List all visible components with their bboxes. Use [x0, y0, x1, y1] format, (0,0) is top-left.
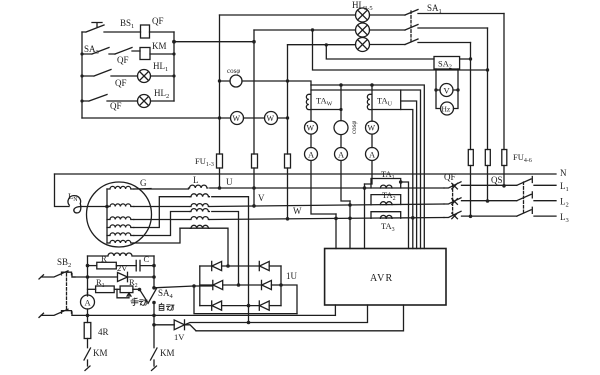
disconnect QS pole 1	[517, 177, 556, 186]
wattmeter W (left pair 1)	[231, 112, 244, 125]
wire: bridge phase C extension to AVR line	[248, 306, 250, 323]
voltmeter V	[440, 84, 453, 97]
switch SA1 pole 1	[405, 10, 504, 16]
svg-text:QF: QF	[110, 101, 122, 111]
reactor L row6	[190, 225, 209, 228]
lamp HL3	[356, 8, 370, 22]
wire: TA box top line / lead 2 to AVR	[311, 90, 421, 249]
wire: reactor row6 loop to bridge phase A	[180, 228, 228, 266]
wire: vertical from lamp line 1 down through FU1 to U	[219, 15, 221, 188]
svg-text:V: V	[444, 86, 451, 96]
lamp HL5	[356, 38, 370, 52]
wire: N line	[55, 173, 557, 175]
svg-text:R1: R1	[96, 277, 105, 289]
winding G phase 3	[107, 217, 134, 220]
bridge frame 1U	[200, 266, 281, 306]
wattmeter W (chain 1)	[305, 85, 318, 134]
svg-text:1U: 1U	[286, 271, 298, 281]
svg-text:R: R	[101, 254, 107, 264]
wire: V/Hz meter verticals	[436, 69, 458, 109]
wire: N left drop to neutral reactor	[55, 174, 70, 207]
wire: sense drop U to AVR	[364, 184, 366, 249]
disconnect QS pole 3	[517, 207, 556, 216]
wire: SA4 common to bridge mid row	[154, 286, 213, 288]
node: snubber junctions	[86, 264, 156, 279]
wire: lamp line2 tap down to SA2 lower wire	[313, 30, 488, 70]
wire: ladder right bus	[173, 32, 175, 101]
wire: AVR output 3 to line y331	[196, 305, 404, 331]
svg-text:TAU: TAU	[377, 96, 393, 108]
fuse FU1	[217, 154, 223, 168]
svg-text:W: W	[368, 124, 376, 133]
svg-text:L: L	[193, 175, 199, 185]
reactor L row4	[190, 209, 209, 212]
wire: field left leg	[87, 256, 89, 296]
wire: ladder tap to metering vertical	[174, 41, 254, 43]
svg-text:TA2: TA2	[382, 190, 396, 202]
wire: SA1 pole3 down to FU6	[470, 43, 472, 217]
node: SA2 right junction	[469, 57, 472, 60]
link QF dashed	[452, 184, 454, 213]
svg-text:1V: 1V	[174, 332, 185, 342]
svg-text:FU1-3: FU1-3	[195, 156, 214, 168]
winding G harmonic 2	[107, 233, 134, 236]
wire: G harmonic2 jog up to reactor row4	[134, 212, 190, 236]
block AVR	[325, 249, 446, 306]
wire: G harmonic1 jog up to reactor row2	[134, 197, 190, 228]
wire: TA1 takeoff to AVR	[401, 182, 409, 249]
svg-text:V: V	[258, 193, 265, 203]
node: bus junctions	[80, 40, 176, 103]
fuse FU6	[468, 150, 473, 166]
wire: SA2 right to pole-1 drop	[460, 58, 471, 60]
diode 1U-c1	[200, 301, 259, 310]
wire: TA metering bus / lead 1 to AVR	[311, 85, 424, 249]
wire: A3 drop and jog to U line	[365, 161, 373, 185]
svg-text:A: A	[308, 150, 315, 160]
reactor L row2	[190, 194, 209, 197]
node: TA bus junctions	[339, 83, 374, 111]
svg-text:LN: LN	[68, 191, 78, 203]
node: metering junctions	[218, 79, 289, 119]
wire: ladder left bus	[81, 32, 83, 118]
wattmeter W (left pair 2)	[265, 112, 278, 125]
resistor 4R	[84, 315, 91, 347]
pushbutton SB2 pole 2	[39, 309, 72, 317]
disconnect QS pole 2	[517, 192, 556, 201]
svg-text:cosφ: cosφ	[350, 121, 358, 134]
svg-text:SB2: SB2	[57, 257, 71, 269]
diode 1U-b2	[262, 280, 282, 289]
wire: G phase2 (V) to reactor row3	[134, 206, 189, 208]
wire: A1 drop and jog to W line	[311, 161, 336, 215]
svg-text:KM: KM	[160, 348, 175, 358]
node: R2 output	[138, 288, 142, 292]
capacitor C	[136, 260, 154, 270]
meter cos-phi	[230, 75, 242, 87]
wire: ladder bottom to wattmeter line	[82, 117, 220, 119]
node: lamp line junctions	[252, 28, 328, 46]
svg-text:L1: L1	[560, 181, 569, 193]
wire: drop to bridge bottom rail	[194, 286, 297, 314]
generator G	[87, 182, 152, 247]
wire: SA1 pole1 down to FU4	[503, 14, 505, 186]
svg-text:TA1: TA1	[381, 169, 395, 181]
reactor LN	[68, 196, 81, 213]
rheostat R2	[114, 286, 139, 298]
svg-text:TAW: TAW	[316, 96, 333, 108]
coil KM	[140, 48, 150, 60]
wire: reactor row2 drop to bridge phase C	[212, 197, 249, 306]
frequency meter Hz	[441, 102, 454, 115]
ammeter A (chain 1)	[305, 134, 318, 160]
contact QF aux (rung 2)	[115, 48, 140, 55]
svg-text:HL1: HL1	[153, 61, 168, 73]
wire: R2 to manual contact	[140, 290, 148, 303]
lamp HL1	[138, 70, 175, 83]
ammeter A (chain 2)	[335, 135, 348, 161]
pushbutton SB2 pole 1	[39, 271, 75, 279]
link QS dashed	[523, 182, 525, 212]
svg-text:FU4-6: FU4-6	[513, 152, 532, 164]
svg-text:KM: KM	[93, 348, 108, 358]
diode 1U-b1	[200, 280, 262, 289]
wire: A2 drop and jog to V line	[341, 161, 350, 202]
fuse FU2	[252, 154, 258, 168]
contact QF (rung 3)	[82, 70, 138, 77]
wire: AVR output 1	[334, 305, 336, 315]
wire: U line from reactor to QF	[210, 187, 444, 189]
contact KM (left)	[84, 348, 91, 371]
wire: sense drop V to AVR	[349, 201, 351, 249]
winding G harmonic 1	[107, 225, 134, 228]
wire: V line from reactor to QF	[210, 204, 444, 207]
node: bridge junctions	[226, 264, 283, 324]
diode 1U-c2	[259, 301, 281, 310]
wire: lamp line3 tap down to SA2 upper wire	[326, 45, 434, 59]
breaker QF pole 2	[444, 198, 517, 205]
winding G phase 2	[107, 204, 134, 207]
svg-text:KM: KM	[152, 41, 167, 51]
coil QF (rung 1)	[141, 25, 150, 38]
svg-text:A: A	[369, 150, 376, 160]
ammeter A (field)	[81, 293, 95, 316]
breaker QF pole 3	[444, 211, 517, 218]
svg-text:W: W	[293, 206, 302, 216]
contact QF (rung 4)	[82, 95, 138, 102]
switch box SA2	[434, 57, 460, 70]
svg-text:W: W	[307, 124, 315, 133]
svg-text:A: A	[338, 150, 345, 160]
svg-text:W: W	[267, 114, 275, 123]
diode 1U-a1	[200, 261, 259, 270]
svg-text:HL3-5: HL3-5	[352, 0, 373, 12]
wire: lamp line 1	[220, 14, 356, 16]
wire: cos-phi meter line	[220, 80, 288, 82]
pushbutton BS1	[82, 23, 141, 33]
svg-text:N: N	[560, 168, 567, 178]
switch SA3 (rung 2)	[82, 48, 115, 55]
svg-text:HL2: HL2	[154, 88, 169, 100]
switch SA1 pole 2	[405, 25, 488, 31]
wire: LN to generator neutral	[80, 206, 107, 208]
svg-text:AVR: AVR	[370, 273, 393, 284]
diode 1V	[154, 320, 196, 331]
wire: G phase3 (W) to reactor row5	[134, 219, 189, 221]
fuse FU3	[285, 154, 291, 168]
wire: bridge plus loop	[281, 285, 297, 314]
link SB2 dashed	[66, 274, 68, 310]
resistor R1	[88, 286, 115, 293]
wire: reactor row4 drop to bridge phase B	[212, 212, 239, 286]
node: TA1 takeoff	[399, 180, 403, 184]
svg-text:cosφ: cosφ	[227, 67, 240, 75]
wire: generator star bar	[106, 189, 108, 243]
wire: W line from reactor to QF	[210, 218, 444, 220]
svg-text:C: C	[144, 254, 150, 264]
svg-text:A: A	[85, 298, 92, 308]
svg-text:U: U	[226, 177, 233, 187]
node: 1V tap	[152, 323, 156, 327]
svg-text:L3: L3	[560, 212, 569, 224]
lamp HL2	[138, 95, 175, 108]
wire: lamp line 3 from fuse-3 chain	[288, 44, 356, 46]
wire: AVR output 2 to line y322	[185, 305, 368, 325]
svg-text:QF: QF	[444, 172, 456, 182]
node: bridge left drop	[192, 284, 196, 288]
svg-text:QF: QF	[117, 55, 129, 65]
fuse FU4	[502, 150, 507, 166]
winding field LG	[88, 253, 155, 256]
wire: auto chain vertical	[153, 303, 155, 348]
wire: lead 4 to AVR	[401, 110, 413, 249]
ammeter A (chain 3)	[366, 134, 379, 160]
label manual (hand-drawn CJK strokes)	[131, 298, 147, 305]
svg-text:QF: QF	[152, 16, 164, 26]
svg-text:BS1: BS1	[120, 18, 134, 30]
wattmeter W (chain 3)	[366, 85, 379, 134]
svg-text:W: W	[233, 114, 241, 123]
svg-text:4R: 4R	[98, 327, 109, 337]
svg-text:TA3: TA3	[381, 221, 395, 233]
node: voltmeter junctions	[434, 88, 459, 91]
CT TA1	[371, 179, 401, 189]
resistor R	[88, 262, 137, 269]
node: junction at SA2 lower wire	[486, 68, 489, 71]
wire: wattmeter line segments	[220, 117, 288, 119]
svg-text:G: G	[140, 178, 147, 188]
CT TA2	[371, 195, 401, 205]
selector SA4	[148, 286, 157, 304]
node: fuse taps on L lines	[469, 184, 506, 218]
wire: long auto bus	[72, 314, 335, 316]
wire: field right leg / auto chain top	[153, 256, 155, 288]
winding G phase 1	[107, 186, 134, 189]
meter cos-phi (chain 2)	[334, 85, 348, 135]
link SA1 dashed	[410, 11, 412, 43]
svg-text:SA4: SA4	[158, 288, 174, 300]
winding G harmonic 3	[107, 240, 134, 243]
wire: vertical through FU2 down to V	[253, 30, 255, 206]
fuse FU5	[485, 150, 490, 166]
svg-text:Hz: Hz	[442, 105, 451, 114]
node: auto bus junctions	[86, 314, 156, 318]
svg-text:QS: QS	[491, 175, 503, 185]
reactor L row3	[190, 204, 209, 207]
node: neutral junction	[105, 205, 109, 209]
wire: lamp line 2	[254, 29, 356, 31]
svg-text:QF: QF	[115, 78, 127, 88]
svg-text:2V: 2V	[117, 263, 128, 273]
wire: lamps to SA1 poles	[370, 15, 406, 45]
switch SA1 pole 3	[405, 39, 471, 45]
reactor L row1	[189, 185, 208, 188]
wire: SA1 pole2 down to FU5	[487, 28, 489, 201]
CT TAu	[367, 90, 400, 110]
wire: G phase1 to reactor row1	[134, 188, 189, 191]
node: fuse and sense taps on main lines	[218, 186, 415, 220]
reactor L row5	[190, 217, 209, 220]
lamp HL4	[356, 23, 370, 37]
wire: G harmonic3 jog up to reactor row6 loop	[134, 228, 180, 243]
label auto (hand-drawn CJK strokes)	[159, 303, 174, 310]
diode 2V	[72, 272, 154, 281]
wire: vertical from cos-phi line down through FU3 to W	[287, 45, 289, 219]
CT TA3	[371, 212, 401, 219]
contact KM (right)	[151, 348, 158, 371]
breaker QF pole 1	[444, 182, 517, 189]
wire: lead 3 to AVR	[401, 101, 417, 249]
svg-text:L2: L2	[560, 197, 569, 209]
wire: step from cos-phi junction to TA bus line	[288, 81, 312, 85]
wire: sense drop W to AVR	[335, 214, 337, 249]
CT TAw	[306, 94, 341, 109]
diode 1U-a2	[259, 261, 281, 270]
